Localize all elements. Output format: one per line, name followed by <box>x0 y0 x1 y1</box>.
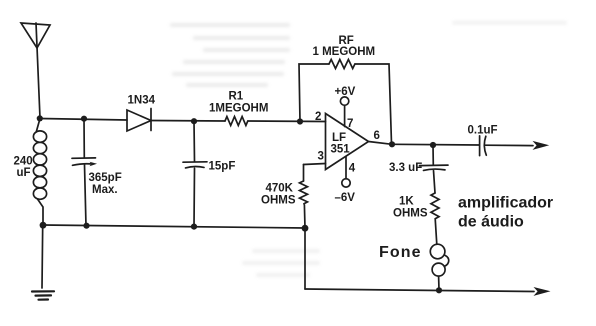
svg-text:365pF: 365pF <box>89 172 122 184</box>
svg-text:–6V: –6V <box>335 192 356 204</box>
svg-text:OHMS: OHMS <box>393 208 428 220</box>
svg-text:7: 7 <box>347 118 353 130</box>
svg-text:amplificador: amplificador <box>458 195 553 212</box>
svg-text:470K: 470K <box>266 183 294 195</box>
svg-text:uF: uF <box>17 167 31 179</box>
svg-text:Fone: Fone <box>379 244 422 261</box>
svg-text:240: 240 <box>14 156 33 168</box>
svg-text:1N34: 1N34 <box>128 95 156 107</box>
svg-text:1 MEGOHM: 1 MEGOHM <box>313 46 376 58</box>
svg-text:351: 351 <box>331 144 351 156</box>
svg-text:de áudio: de áudio <box>458 214 524 231</box>
svg-text:1K: 1K <box>399 196 414 208</box>
svg-text:15pF: 15pF <box>209 161 236 173</box>
svg-text:3: 3 <box>318 151 324 163</box>
svg-text:Max.: Max. <box>92 184 118 196</box>
svg-text:3.3 uF: 3.3 uF <box>389 162 422 174</box>
svg-text:6: 6 <box>374 130 380 142</box>
svg-text:+6V: +6V <box>335 86 356 98</box>
svg-text:OHMS: OHMS <box>261 195 296 207</box>
svg-text:R1: R1 <box>229 91 244 103</box>
svg-text:0.1uF: 0.1uF <box>468 125 498 137</box>
svg-text:1MEGOHM: 1MEGOHM <box>209 103 268 115</box>
svg-text:2: 2 <box>315 111 321 123</box>
svg-text:LF: LF <box>332 132 346 144</box>
svg-text:4: 4 <box>349 163 356 175</box>
